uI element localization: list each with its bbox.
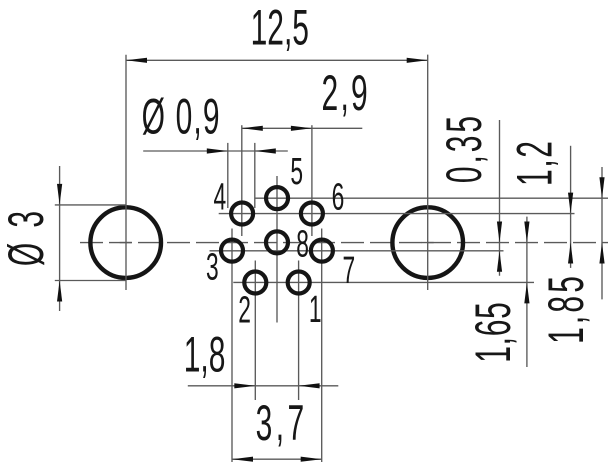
pin P4 [231,203,253,225]
dimension 1,85 [538,167,604,344]
dimension 1,65 [465,217,529,367]
pin number 1 [309,288,322,330]
pin number 3 [206,245,219,287]
svg-text:8: 8 [296,222,309,264]
svg-text:0,35: 0,35 [436,116,492,183]
svg-text:Ø 0,9: Ø 0,9 [142,89,220,145]
pin row line 4-6 [219,213,575,215]
svg-text:4: 4 [214,175,227,217]
center axis [80,242,608,244]
center mark left hole [120,242,132,244]
dimension 1,2 [507,141,574,268]
pin column line 7 [321,229,323,463]
pin row line 5 [255,197,608,199]
svg-text:2,9: 2,9 [322,65,368,121]
mounting hole right [392,207,463,278]
center mark right hole [422,242,434,244]
pin number 5 [290,150,303,192]
svg-text:1,8: 1,8 [184,327,226,383]
svg-text:2: 2 [238,289,251,331]
pin column line 3 [231,229,233,463]
svg-text:3: 3 [206,245,219,287]
pin number 6 [332,176,345,218]
pin row line 1-2 [233,281,534,283]
pin P2 [244,272,266,294]
svg-text:7: 7 [342,249,355,291]
pin column line 4 [241,125,243,236]
dimension diameter 0,9 [142,89,288,208]
pin column line 1 [298,261,300,401]
pin number 4 [214,175,227,217]
dimension 1,8 [184,327,339,389]
svg-text:1: 1 [309,288,322,330]
wire centerline left hole vertical [125,55,127,290]
pin P8 [266,231,288,253]
pin column line 2 [254,261,256,401]
pin P5 [266,187,288,209]
pin P7 [311,240,333,262]
pin number 7 [342,249,355,291]
svg-text:12,5: 12,5 [251,0,309,55]
wire centerline right hole vertical [427,55,429,290]
pin P1 [288,272,310,294]
pin column line 6 [311,125,313,236]
pin row line 3-7 [210,250,504,252]
svg-text:1,85: 1,85 [538,276,594,344]
svg-text:1,2: 1,2 [507,141,563,186]
svg-text:Ø 3: Ø 3 [0,211,54,266]
dimension diameter 3 [0,166,126,311]
pin P6 [301,203,323,225]
dimension 3,7 [232,395,322,461]
dimension 0,35 [436,116,502,276]
pin column line 5-8 [276,176,278,323]
mounting hole left [90,207,161,278]
svg-text:1,65: 1,65 [465,302,521,363]
dimension 2,9 [242,65,368,131]
svg-text:3,7: 3,7 [256,395,305,451]
pin number 8 [296,222,309,264]
svg-text:6: 6 [332,176,345,218]
svg-text:5: 5 [290,150,303,192]
pin P3 [221,240,243,262]
pin number 2 [238,289,251,331]
dimension 12,5 [126,0,428,63]
